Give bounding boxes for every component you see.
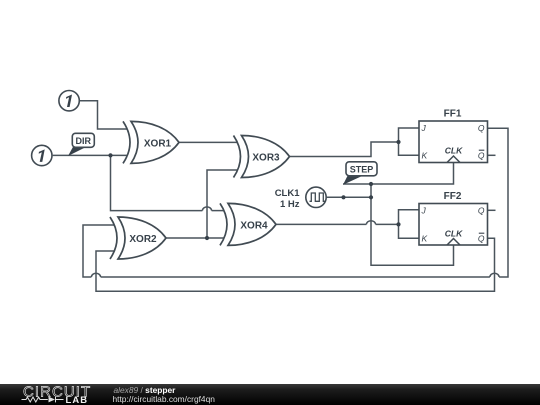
svg-text:DIR: DIR — [76, 136, 92, 146]
wire STEP net: flag tip to FF1 CLK — [343, 163, 454, 184]
svg-text:K: K — [422, 150, 428, 160]
svg-text:XOR4: XOR4 — [240, 221, 268, 232]
wire STEP net vertical down to FF2 CLK — [371, 184, 454, 265]
svg-text:Q: Q — [478, 206, 485, 216]
terminal 1 (left) — [32, 145, 52, 165]
wire XOR3 output to FF1 J/K — [290, 128, 420, 157]
junction on DIR net at XOR4 branch — [108, 153, 112, 157]
wire FF1 Q feedback to XOR2 input A with hops — [83, 128, 508, 277]
footer logo LAB — [66, 394, 89, 405]
svg-text:XOR2: XOR2 — [129, 234, 157, 245]
flip-flop FF2 — [419, 191, 488, 245]
wire FF2 Qbar feedback to XOR2 input B — [96, 238, 495, 291]
svg-text:XOR1: XOR1 — [144, 139, 172, 150]
junction where CLK1 output joins STEP vertical — [369, 195, 373, 199]
svg-text:LAB: LAB — [66, 394, 89, 405]
clock source CLK1 — [306, 187, 326, 207]
wire CLK1 output — [327, 196, 371, 198]
flip-flop FF1 — [419, 109, 488, 163]
svg-text:STEP: STEP — [350, 164, 374, 174]
svg-text:CLK: CLK — [445, 146, 463, 156]
svg-text:FF2: FF2 — [444, 191, 462, 202]
XOR gate XOR4 — [220, 203, 276, 245]
svg-text:http://circuitlab.com/crgf4qn: http://circuitlab.com/crgf4qn — [113, 394, 216, 404]
svg-text:J: J — [421, 123, 427, 133]
wire from terminal 1 top to XOR1 input A — [80, 101, 127, 129]
svg-text:K: K — [422, 233, 428, 243]
junction at FF1 J/K tie — [396, 140, 400, 144]
XOR gate XOR1 — [123, 121, 179, 163]
svg-text:Q: Q — [478, 233, 485, 243]
XOR gate XOR3 — [234, 136, 290, 178]
wire XOR1 output to XOR3 input A — [179, 141, 238, 143]
svg-text:Q: Q — [478, 150, 485, 160]
value label 1 Hz — [280, 199, 300, 210]
footer logo CIRCUIT — [23, 383, 91, 400]
footer logo resistor-diode glyph — [22, 397, 64, 403]
wire XOR4 output to FF2 J/K with hop — [276, 210, 419, 238]
XOR gate XOR2 — [110, 217, 166, 259]
junction on STEP net at FF2 clock branch — [369, 182, 373, 186]
wire XOR2 output to XOR4 input B — [166, 237, 224, 239]
junction on XOR2 output at XOR3 branch — [205, 236, 209, 240]
label CLK1 — [275, 188, 301, 199]
svg-text:CLK1: CLK1 — [275, 188, 301, 199]
svg-text:CLK: CLK — [445, 229, 463, 239]
svg-text:FF1: FF1 — [444, 109, 462, 120]
svg-text:1 Hz: 1 Hz — [280, 199, 300, 210]
FF2 Q stub — [488, 209, 496, 211]
svg-text:XOR3: XOR3 — [252, 153, 280, 164]
svg-text:J: J — [421, 206, 427, 216]
junction at FF2 J/K tie — [396, 222, 400, 226]
junction on CLK1 output at STEP flag attach point — [341, 195, 345, 199]
FF1 Qbar stub — [488, 154, 496, 156]
footer bar — [0, 384, 540, 405]
net flag STEP — [343, 162, 377, 185]
wire DIR net branch down to XOR4 input A with hop — [111, 155, 225, 210]
footer credit line — [113, 385, 216, 404]
net flag DIR — [68, 133, 94, 156]
wire branch XOR2 output up to XOR3 input B — [207, 170, 238, 238]
svg-text:Q: Q — [478, 123, 485, 133]
terminal 1 (top) — [59, 91, 79, 111]
wire DIR net: terminal 1 to XOR1 input B — [53, 154, 127, 156]
